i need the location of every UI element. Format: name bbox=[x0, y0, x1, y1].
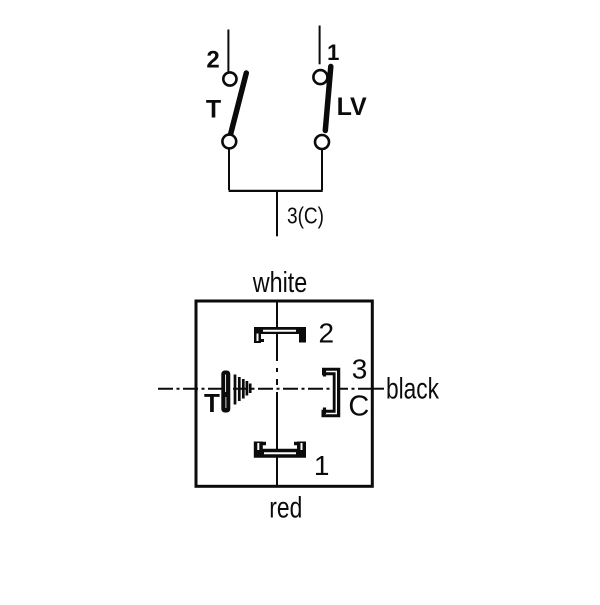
toggle lever bat T bbox=[221, 371, 230, 413]
svg-text:LV: LV bbox=[337, 93, 367, 121]
terminal 1 blade bbox=[258, 442, 301, 454]
svg-text:T: T bbox=[206, 95, 221, 123]
switch LV top contact bbox=[313, 70, 327, 84]
wire lead terminal 2 bbox=[227, 30, 229, 73]
horizontal center line stub right bbox=[372, 388, 384, 390]
terminal 2 blade bbox=[258, 331, 303, 344]
switch T top contact bbox=[223, 72, 236, 85]
vertical center line bbox=[276, 301, 278, 486]
wire T to bus bbox=[228, 149, 230, 191]
terminal 3 blade bbox=[322, 370, 337, 414]
switch T lever bbox=[231, 73, 247, 135]
switch LV lever bbox=[325, 67, 331, 131]
switch LV bottom contact bbox=[315, 135, 329, 149]
svg-text:C: C bbox=[348, 391, 369, 423]
toggle lever hatch fan bbox=[235, 375, 250, 405]
wire LV to bus bbox=[321, 149, 323, 190]
connector body outline bbox=[196, 301, 372, 486]
svg-text:3: 3 bbox=[352, 353, 368, 384]
svg-text:2: 2 bbox=[206, 47, 219, 74]
svg-text:2: 2 bbox=[319, 317, 335, 348]
horizontal center line bbox=[158, 388, 372, 390]
bus wire common bbox=[229, 190, 323, 192]
switch T bottom contact bbox=[222, 135, 236, 149]
svg-text:1: 1 bbox=[314, 450, 330, 481]
svg-text:white: white bbox=[252, 267, 307, 299]
svg-text:1: 1 bbox=[327, 40, 339, 65]
svg-text:3(C): 3(C) bbox=[287, 203, 324, 229]
svg-text:T: T bbox=[204, 388, 220, 418]
wire lead terminal 1 bbox=[319, 26, 321, 65]
svg-text:black: black bbox=[386, 373, 440, 406]
wire stub common 3(C) bbox=[276, 191, 278, 236]
svg-text:red: red bbox=[269, 492, 302, 525]
